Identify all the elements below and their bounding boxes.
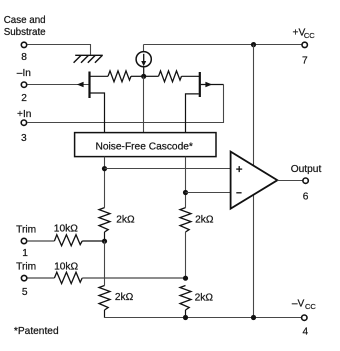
svg-text:Noise-Free Cascode*: Noise-Free Cascode* [96, 141, 193, 152]
svg-text:Trim: Trim [16, 225, 36, 236]
svg-text:–V: –V [292, 299, 305, 310]
svg-text:+In: +In [17, 109, 31, 120]
resistor R4 (2k upper right) [180, 208, 191, 232]
resistor R8 (2k lower right) [180, 286, 191, 311]
node B2 dot [183, 276, 188, 281]
op-amp + sign [236, 166, 242, 172]
pin 3 circle [21, 120, 26, 125]
pin 1 circle [21, 238, 26, 243]
top rail to +Vcc [144, 44, 302, 46]
pin 5 circle [21, 275, 26, 280]
transistor Q2 bar [199, 72, 201, 97]
op-amp A1 [231, 152, 278, 209]
svg-text:2kΩ: 2kΩ [195, 293, 214, 304]
power rail vertical upper [253, 45, 255, 166]
transistor Q1 bar [88, 72, 90, 99]
junction dot top rail [251, 42, 256, 47]
pin 2 circle [21, 82, 26, 87]
resistor R5 (10k) [54, 235, 82, 246]
svg-text:8: 8 [21, 52, 27, 63]
pin 7 circle [302, 42, 307, 47]
svg-text:CC: CC [305, 302, 316, 311]
junction dot under I1 [141, 74, 146, 79]
pin 8 circle [21, 42, 26, 47]
pin 4 circle [302, 315, 307, 320]
wire R2 to Q2 [182, 75, 200, 77]
output wire [277, 180, 302, 182]
wire box to node A and R3 [104, 157, 106, 208]
wire box to node B [185, 157, 187, 208]
wire pin1 to R5 [28, 240, 55, 242]
Q2 gate lead [201, 84, 224, 86]
wire R5 to trim node [82, 240, 104, 242]
svg-text:6: 6 [303, 191, 309, 202]
svg-text:1: 1 [22, 248, 28, 259]
op-amp - sign [236, 192, 241, 194]
wire R1 to node [131, 75, 144, 77]
resistor R1 (drain load left) [108, 71, 131, 82]
svg-text:Substrate: Substrate [4, 27, 46, 38]
pin 6 circle [303, 178, 308, 183]
Q1 drain lead [90, 75, 109, 77]
wire -In to Q1 gate [28, 84, 89, 86]
node A dot [102, 166, 107, 171]
svg-text:5: 5 [22, 287, 28, 298]
svg-text:CC: CC [304, 31, 315, 40]
svg-text:Trim: Trim [16, 262, 36, 273]
resistor R6 (10k) [54, 272, 82, 283]
current source I1 [136, 45, 151, 77]
svg-text:–In: –In [17, 68, 31, 79]
wire R8 to rail [185, 310, 187, 318]
wire R7 to rail [104, 310, 106, 318]
junction dot rail/power [251, 315, 256, 320]
wire R6 to node B2 [82, 277, 185, 279]
noise-free cascode block U1 [75, 133, 216, 157]
wire I1 node to cascode box [143, 76, 145, 132]
svg-text:3: 3 [21, 133, 27, 144]
bottom rail [104, 317, 301, 319]
wire node B to op-amp - [186, 192, 231, 194]
wire R4 down to trim5 node [185, 232, 187, 278]
wire node A to op-amp + [105, 168, 231, 170]
wire pin5 to R6 [28, 277, 55, 279]
wire trim node down to R7 [104, 241, 106, 286]
svg-text:7: 7 [302, 56, 308, 67]
wire R3 to trim node [104, 232, 106, 241]
Q2 source lead [186, 94, 199, 133]
node B dot [183, 190, 188, 195]
svg-text:10kΩ: 10kΩ [54, 223, 78, 234]
wire +In to Q2 gate loop [27, 85, 223, 123]
wire node to R2 [144, 75, 159, 77]
resistor R3 (2k upper left) [99, 208, 110, 232]
svg-text:2: 2 [21, 93, 27, 104]
arrow on Q2 gate [205, 82, 212, 87]
wire pin8 to ground [28, 45, 91, 55]
resistor R2 (drain load right) [159, 71, 182, 82]
svg-text:Case and: Case and [4, 15, 46, 26]
svg-text:2kΩ: 2kΩ [115, 292, 134, 303]
trim node dot [102, 239, 107, 244]
svg-text:2kΩ: 2kΩ [116, 215, 135, 226]
svg-text:4: 4 [303, 326, 309, 337]
ground [74, 55, 103, 63]
power rail vertical lower [253, 195, 255, 318]
svg-text:Output: Output [291, 164, 322, 175]
Q1 source lead [90, 93, 104, 133]
arrow on Q1 gate [77, 82, 84, 87]
svg-text:2kΩ: 2kΩ [195, 214, 214, 225]
junction dot rail/R8 [183, 315, 188, 320]
resistor R7 (2k lower left) [99, 286, 110, 311]
svg-text:*Patented: *Patented [14, 326, 59, 337]
